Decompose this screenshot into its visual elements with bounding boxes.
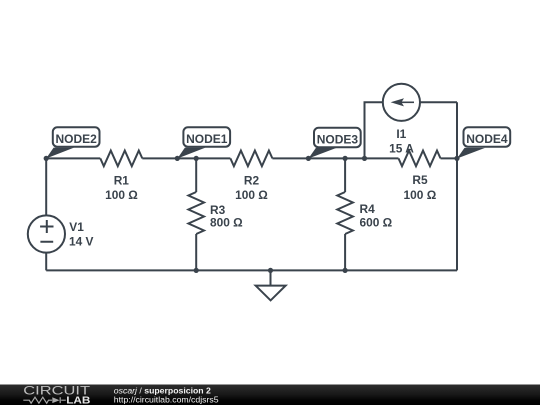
svg-text:R4: R4: [360, 202, 376, 216]
svg-text:800 Ω: 800 Ω: [210, 216, 243, 230]
svg-text:I1: I1: [396, 127, 406, 141]
svg-text:14 V: 14 V: [69, 235, 94, 249]
svg-text:NODE2: NODE2: [56, 132, 98, 146]
svg-text:R2: R2: [244, 174, 260, 188]
svg-text:NODE3: NODE3: [317, 132, 359, 146]
svg-text:15 A: 15 A: [389, 142, 414, 156]
svg-text:R5: R5: [412, 173, 428, 187]
svg-text:V1: V1: [69, 220, 84, 234]
svg-text:NODE4: NODE4: [466, 132, 508, 146]
svg-text:NODE1: NODE1: [186, 132, 228, 146]
svg-text:600 Ω: 600 Ω: [360, 215, 393, 229]
svg-text:http://circuitlab.com/cdjsrs5: http://circuitlab.com/cdjsrs5: [114, 394, 219, 404]
svg-text:LAB: LAB: [66, 395, 90, 405]
svg-text:100 Ω: 100 Ω: [235, 188, 268, 202]
svg-text:R1: R1: [114, 174, 130, 188]
svg-text:100 Ω: 100 Ω: [105, 188, 138, 202]
svg-text:100 Ω: 100 Ω: [404, 188, 437, 202]
